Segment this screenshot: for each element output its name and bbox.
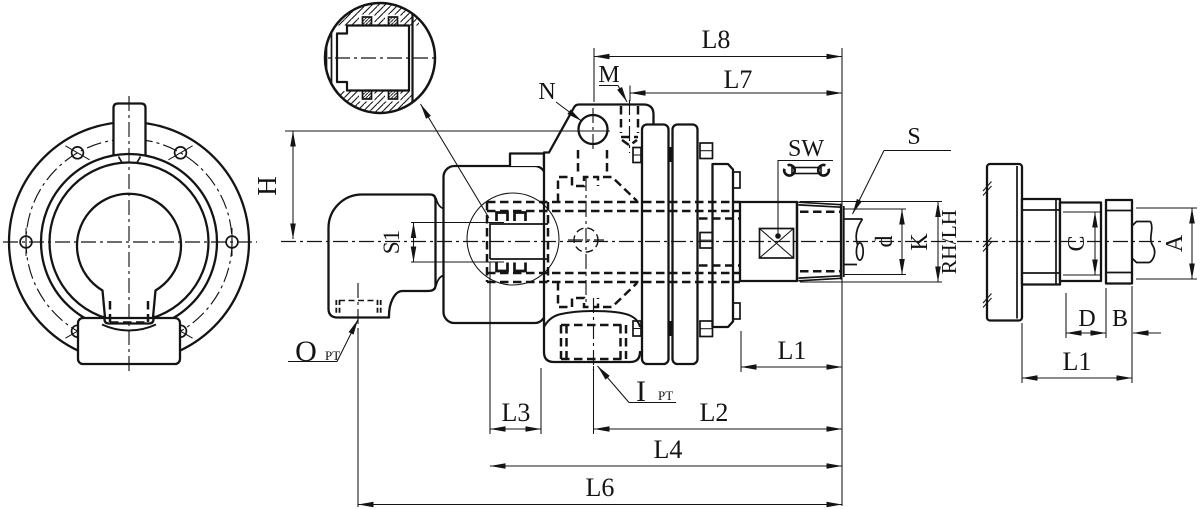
rotor flange nub bottom xyxy=(733,303,740,319)
N port hole xyxy=(579,115,608,144)
shaft wrench-flat section xyxy=(740,202,797,281)
body bottom port boss curve xyxy=(544,311,640,327)
svg-text:H: H xyxy=(252,176,282,196)
dim L4 xyxy=(490,465,842,467)
bearing hidden slant top xyxy=(603,177,637,201)
bolt hole right xyxy=(226,236,238,248)
svg-text:PT: PT xyxy=(658,388,673,403)
bottom port thread (hidden) xyxy=(560,325,563,359)
shaft section C xyxy=(1060,203,1101,282)
keyway symbol box xyxy=(760,229,794,259)
boss right shoulder xyxy=(640,104,654,127)
elbow weld flare top xyxy=(436,198,444,209)
o-ring top 2 xyxy=(389,17,398,26)
shaft cylinder 1 xyxy=(1022,199,1060,285)
flange hatch ticks bottom xyxy=(983,294,992,308)
wrench icon xyxy=(784,165,829,176)
nipple hidden left edge xyxy=(486,202,489,282)
nipple hex flats xyxy=(490,224,548,259)
front view vertical centerline xyxy=(128,96,130,371)
balloon circle xyxy=(325,3,435,113)
thread end face xyxy=(840,205,842,279)
S1 housing xyxy=(444,166,546,323)
hatching top band xyxy=(318,0,419,26)
flange hatch ticks middle xyxy=(983,238,992,252)
elbow port counterbore lines xyxy=(336,300,339,314)
elbow port thread dashes xyxy=(339,300,378,302)
o-ring pocket bottom 1 xyxy=(359,91,375,102)
dim L1 (center view) xyxy=(741,366,842,368)
svg-text:L3: L3 xyxy=(502,398,531,427)
hidden bore line bottom A xyxy=(487,272,740,275)
top boss xyxy=(114,104,145,152)
shaft flange xyxy=(987,164,1022,321)
elbow body xyxy=(329,195,436,318)
svg-text:L4: L4 xyxy=(654,435,683,464)
bottom mounting block xyxy=(78,318,180,364)
detail indicator circle xyxy=(467,193,559,285)
keyhole neck bottom xyxy=(105,316,154,324)
keyhole bore xyxy=(77,194,181,324)
dim L2 xyxy=(594,428,842,430)
N port vertical crosshair xyxy=(592,108,594,151)
bolt hole left xyxy=(20,236,32,248)
dim C xyxy=(1063,211,1100,213)
svg-text:O: O xyxy=(295,335,317,368)
bottom port axis xyxy=(593,298,595,371)
shaft end stub with break xyxy=(1132,222,1155,263)
flange disc 1 xyxy=(642,125,669,365)
svg-text:S: S xyxy=(907,124,920,150)
dim L7 xyxy=(630,92,842,94)
dim L8 xyxy=(594,56,842,58)
threaded end outline xyxy=(796,202,798,281)
flange outer circle xyxy=(9,122,249,362)
bearing hidden slant bottom xyxy=(603,283,637,307)
o-ring pocket top 2 xyxy=(385,15,401,26)
hidden bore line top A xyxy=(487,201,740,204)
shaft flange face line xyxy=(1016,166,1018,319)
flange hatch ticks top xyxy=(983,182,992,196)
o-ring bracket top 1 xyxy=(497,213,508,222)
svg-text:N: N xyxy=(538,79,555,105)
hatching top-right wedge xyxy=(412,0,442,18)
dim L3 xyxy=(490,428,541,430)
coupling bolt in disc gap bottom xyxy=(669,321,673,336)
svg-text:d: d xyxy=(872,236,898,248)
dim D xyxy=(1065,293,1067,338)
svg-text:I: I xyxy=(636,375,646,408)
svg-text:L1: L1 xyxy=(778,336,807,365)
hatching bottom band xyxy=(330,91,413,123)
keyhole port thread dashes xyxy=(109,301,112,322)
dim K xyxy=(800,201,942,203)
nut right of disc2 top xyxy=(700,143,713,159)
svg-text:RH/LH: RH/LH xyxy=(937,210,961,275)
dim L1 (right view) xyxy=(1021,323,1023,383)
svg-text:A: A xyxy=(1162,234,1188,252)
dim S1 xyxy=(411,222,504,224)
o-ring bottom 2 xyxy=(389,91,398,100)
bolt hole lower-left xyxy=(72,325,84,337)
rotor flange block xyxy=(713,164,734,327)
nut right of disc2 bottom xyxy=(700,321,713,337)
elbow port axis centerline xyxy=(357,283,359,330)
o-ring pocket top 1 xyxy=(359,15,375,26)
coupling bolt in disc gap top xyxy=(669,147,673,162)
main horizontal centerline xyxy=(281,241,1163,243)
nut left of disc1 bottom xyxy=(633,321,641,336)
bearing hidden outline top xyxy=(558,177,598,202)
hidden bore line bottom B xyxy=(487,281,740,284)
dim A xyxy=(1136,207,1197,209)
svg-text:S1: S1 xyxy=(379,230,404,254)
N port bore hidden lines xyxy=(577,150,580,175)
svg-text:L6: L6 xyxy=(586,473,615,502)
elbow weld flare bottom xyxy=(436,276,444,287)
hidden bore short top xyxy=(699,217,741,220)
nipple section xyxy=(337,26,409,91)
svg-text:L7: L7 xyxy=(724,65,753,94)
dim L6 xyxy=(358,504,842,506)
flange disc 2 xyxy=(673,125,698,365)
svg-text:L2: L2 xyxy=(700,398,729,427)
o-ring bottom 1 xyxy=(363,91,372,100)
balloon leader arrow xyxy=(421,104,490,218)
bolt hole upper-left xyxy=(72,147,84,159)
bearing hidden outline bottom xyxy=(558,282,598,307)
svg-text:K: K xyxy=(907,233,933,251)
M stud axis xyxy=(629,100,631,153)
port face wavy edge xyxy=(102,325,156,331)
o-ring bracket bottom 1 xyxy=(497,263,508,272)
dim B xyxy=(1131,286,1133,383)
hidden bore short bottom xyxy=(699,264,741,267)
front view horizontal centerline xyxy=(3,241,257,243)
dim d xyxy=(844,208,906,210)
o-ring top 1 xyxy=(363,17,372,26)
thread root (hidden) xyxy=(800,211,840,214)
main body with top boss xyxy=(544,104,643,362)
bolt hole lower-right xyxy=(175,325,187,337)
M stud (hidden) xyxy=(620,106,623,133)
rotor flange nub top xyxy=(733,172,740,188)
svg-text:D: D xyxy=(1078,306,1095,332)
pilot circle outer xyxy=(41,154,217,330)
hidden bore line top B xyxy=(487,210,740,213)
pilot circle inner xyxy=(50,163,209,322)
housing top key tab xyxy=(510,154,544,167)
nut right of disc2 middle xyxy=(700,233,713,249)
body bore edge xyxy=(411,8,413,108)
svg-text:L1: L1 xyxy=(1063,347,1092,376)
svg-text:C: C xyxy=(1064,235,1090,251)
left wall lines xyxy=(326,30,328,95)
grease hole circle xyxy=(574,228,598,252)
svg-text:M: M xyxy=(598,62,619,88)
o-ring bracket bottom 2 xyxy=(515,263,526,272)
bolt hole upper-right xyxy=(175,147,187,159)
hatching left wall xyxy=(314,36,326,88)
bolt circle centerline xyxy=(26,139,232,345)
shaft section B xyxy=(1106,200,1132,284)
nut left of disc1 top xyxy=(633,148,641,163)
dim H xyxy=(292,131,294,239)
svg-text:B: B xyxy=(1112,306,1128,332)
o-ring pocket bottom 2 xyxy=(385,91,401,102)
svg-text:SW: SW xyxy=(788,136,824,162)
o-ring bracket top 2 xyxy=(515,213,526,222)
svg-text:L8: L8 xyxy=(702,25,731,54)
grease hole crosshairs xyxy=(568,239,604,241)
balloon centerline xyxy=(309,57,449,59)
nipple hidden right edge xyxy=(547,202,550,282)
top boss port slants xyxy=(119,157,141,164)
pipe tail with break xyxy=(845,219,863,265)
